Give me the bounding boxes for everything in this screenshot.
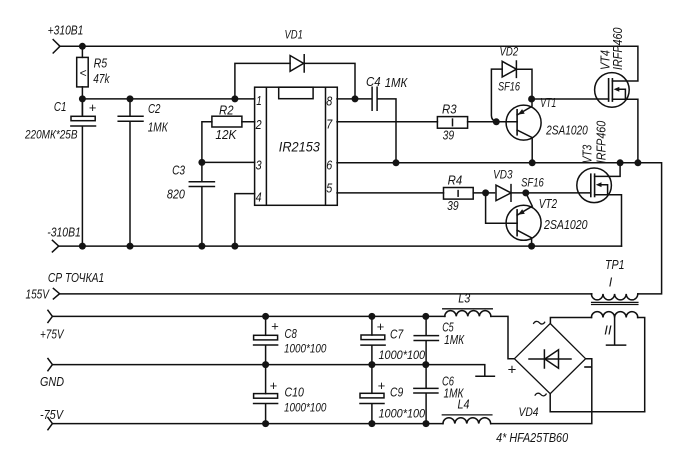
svg-text:155V: 155V [26,286,51,301]
svg-text:1000*100: 1000*100 [379,348,426,362]
svg-text:C3: C3 [172,162,186,177]
svg-text:39: 39 [443,127,455,142]
svg-text:+: + [271,319,279,334]
svg-text:VT1: VT1 [540,96,556,110]
svg-text:1000*100: 1000*100 [284,400,327,414]
svg-text:C10: C10 [285,385,305,400]
svg-text:VT2: VT2 [539,197,557,211]
svg-text:3: 3 [256,158,263,173]
svg-text:1МК: 1МК [385,75,409,90]
svg-text:6: 6 [326,158,333,173]
svg-text:7: 7 [326,117,333,132]
svg-text:220МК*25В: 220МК*25В [24,127,77,141]
svg-text:TP1: TP1 [605,257,625,272]
svg-text:1: 1 [256,93,262,108]
svg-text:8: 8 [326,94,333,109]
svg-text:-75V: -75V [40,407,64,422]
svg-text:39: 39 [447,198,459,213]
svg-text:IRFP460: IRFP460 [611,27,625,70]
svg-text:C7: C7 [390,326,404,341]
svg-text:VD1: VD1 [285,27,303,41]
svg-text:IRFP460: IRFP460 [595,121,609,164]
svg-text:I: I [609,275,613,290]
svg-text:C4: C4 [366,74,381,89]
svg-text:820: 820 [167,187,186,202]
svg-text:L3: L3 [458,290,471,305]
svg-text:GND: GND [40,374,64,389]
svg-text:2: 2 [255,117,262,132]
svg-text:+: + [89,100,97,115]
svg-text:2SA1020: 2SA1020 [545,123,588,137]
svg-text:+310В1: +310В1 [48,22,84,37]
svg-text:SF16: SF16 [521,176,544,190]
svg-text:<: < [80,66,87,80]
svg-text:C9: C9 [390,384,403,399]
svg-text:12K: 12K [215,127,237,142]
svg-text:5: 5 [326,181,333,196]
svg-text:1000*100: 1000*100 [284,341,327,355]
svg-text:-310В1: -310В1 [47,224,81,239]
svg-text:C2: C2 [148,101,161,116]
svg-text:1МК: 1МК [444,333,465,347]
svg-text:R2: R2 [219,102,234,117]
svg-text:+75V: +75V [40,327,65,342]
svg-text:+: + [507,361,516,378]
svg-text:VD3: VD3 [493,167,513,181]
svg-text:C8: C8 [285,326,298,341]
svg-text:R5: R5 [94,55,108,70]
svg-text:1000*100: 1000*100 [379,407,426,421]
svg-text:C1: C1 [54,99,67,114]
svg-text:R4: R4 [448,172,463,187]
svg-text:4* HFA25TB60: 4* HFA25TB60 [496,430,569,445]
svg-text:2SA1020: 2SA1020 [543,218,587,232]
svg-text:1МК: 1МК [148,120,169,135]
svg-text:+: + [377,319,385,334]
svg-text:VD4: VD4 [519,405,539,419]
svg-text:VD2: VD2 [500,44,519,58]
svg-text:II: II [604,322,612,337]
svg-text:IR2153: IR2153 [279,139,321,154]
svg-text:47k: 47k [93,71,110,86]
svg-text:VT3: VT3 [581,145,595,164]
svg-text:+: + [378,378,386,393]
svg-text:+: + [270,378,278,393]
svg-text:R3: R3 [442,101,457,116]
svg-text:СР ТОЧКА1: СР ТОЧКА1 [48,270,104,285]
svg-text:SF16: SF16 [498,79,520,93]
svg-text:1МК: 1МК [444,386,465,400]
svg-text:4: 4 [256,190,262,205]
